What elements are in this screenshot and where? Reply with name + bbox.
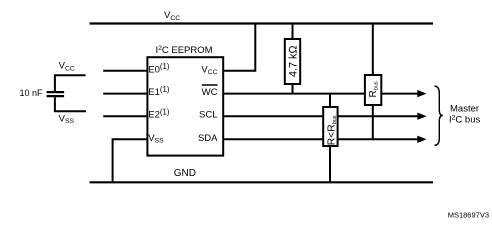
wire R&lt;Rbus resistor leads [329, 94, 331, 108]
capacitor C1 10nF top wire [55, 75, 86, 91]
arrow SCL to master [417, 113, 426, 120]
wire 4.7k resistor leads [292, 24, 294, 43]
arrow WC to master [417, 90, 426, 97]
pin WC (overlined) [202, 85, 218, 98]
wire SCL bus line [223, 115, 419, 117]
wire Rbus resistor leads [372, 24, 374, 78]
EEPROM U1 box [147, 57, 223, 155]
capacitor C1 plates [47, 92, 65, 96]
svg-text:SCL: SCL [199, 110, 217, 121]
label Master I2C bus [449, 104, 480, 126]
svg-text:4.7 kΩ: 4.7 kΩ [288, 45, 300, 77]
wire E1 stub [103, 93, 147, 95]
wire Vcc pin to top rail [223, 24, 255, 71]
net GND bottom rail [90, 168, 434, 182]
svg-text:I2C EEPROM: I2C EEPROM [155, 45, 212, 56]
wire E2 stub [103, 115, 147, 117]
svg-text:Master: Master [450, 104, 479, 115]
arrow SDA to master [417, 136, 426, 143]
capacitor C1 bottom wire [55, 97, 86, 111]
svg-text:SDA: SDA [198, 133, 218, 144]
svg-text:GND: GND [174, 168, 196, 179]
wire SDA bus line [223, 138, 419, 140]
svg-text:10 nF: 10 nF [20, 88, 44, 98]
svg-text:WC: WC [202, 87, 218, 98]
brace master bus [435, 86, 443, 146]
resistor Rbus [365, 75, 381, 105]
wire E0 stub [103, 70, 147, 72]
svg-text:MS18697V3: MS18697V3 [448, 210, 489, 219]
resistor R&lt;Rbus [323, 107, 338, 146]
resistor 4.7 kOhm [285, 39, 300, 84]
wire WC bus line [223, 93, 419, 95]
wire Vss to GND [113, 139, 148, 182]
net VCC top rail [90, 10, 434, 24]
